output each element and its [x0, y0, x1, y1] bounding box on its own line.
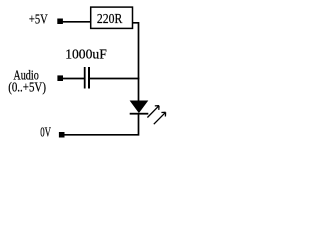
LED D1 cathode bar [130, 113, 149, 115]
wire +5V to R1 [62, 21, 91, 23]
svg-text:220R: 220R [97, 12, 123, 27]
LED D1 light emission arrow 1 [147, 106, 159, 118]
node +5V terminal [57, 19, 63, 25]
svg-text:(0..+5V): (0..+5V) [8, 81, 46, 96]
resistor R1 [91, 7, 133, 28]
wire Audio to C1 [62, 78, 84, 80]
svg-text:1000uF: 1000uF [65, 47, 107, 62]
capacitor C1 right plate [88, 67, 90, 89]
wire R1 output to vertical rail [133, 23, 139, 102]
LED D1 light emission arrow 2 [154, 112, 166, 124]
LED D1 anode triangle [130, 101, 147, 113]
svg-text:+5V: +5V [29, 13, 48, 28]
wire LED cathode to 0V rail [63, 115, 139, 135]
node Audio terminal [57, 75, 63, 81]
capacitor C1 left plate [84, 67, 86, 89]
svg-text:0V: 0V [40, 126, 51, 141]
node 0V terminal [59, 132, 65, 138]
wire C1 to vertical rail [90, 78, 139, 80]
